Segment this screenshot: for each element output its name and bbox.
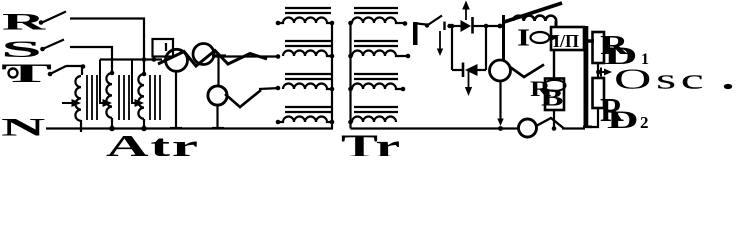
wire T phase xyxy=(66,64,85,75)
autotransformer Atr unit1 winding xyxy=(75,76,81,132)
autotransformer Atr unit3 wiper arrow xyxy=(132,60,144,108)
meter M5 xyxy=(490,60,511,81)
transformer Tr left column row4 core xyxy=(285,107,331,112)
label Osc. xyxy=(614,64,732,95)
wire meter M5 to return bus with arrow xyxy=(497,81,503,131)
switch ST blade xyxy=(48,66,66,76)
sine zigzag across meters xyxy=(158,51,267,67)
check wave on meter M5 xyxy=(510,65,544,78)
diode pair frame xyxy=(450,24,489,70)
current arrow down near switch xyxy=(437,31,443,56)
label R D1 xyxy=(600,31,649,70)
wire N bus xyxy=(46,127,333,129)
meter M1 xyxy=(166,49,188,71)
wire meter M1 to bus xyxy=(170,71,182,129)
resistor RB box xyxy=(545,79,564,111)
wire diode to node xyxy=(486,24,504,29)
oval with arrow xyxy=(531,32,559,43)
svg-text:S: S xyxy=(1,36,42,62)
wire S phase xyxy=(70,47,112,73)
diode D-bottom xyxy=(463,63,478,78)
wire R phase xyxy=(70,19,144,75)
transformer Tr left column row1 core xyxy=(285,8,331,13)
oval on RB xyxy=(544,80,566,91)
wire branch to meter M3 xyxy=(212,56,226,87)
wire RB to return bus xyxy=(552,110,557,131)
transformer Tr left column row2 core xyxy=(285,41,331,46)
svg-text:I/П: I/П xyxy=(553,31,579,51)
autotransformer Atr unit1 wiper arrow xyxy=(62,99,81,107)
svg-text:Atr: Atr xyxy=(106,129,200,156)
wire left column right bus xyxy=(331,23,333,129)
transformer Tr right column row1 winding xyxy=(348,18,407,26)
autotransformer Atr unit3 core xyxy=(150,75,160,120)
autotransformer Atr unit3 winding xyxy=(138,72,146,132)
svg-text:Tr: Tr xyxy=(341,127,402,156)
resistor RD2 box xyxy=(593,78,605,108)
label Atr xyxy=(106,129,200,163)
autotransformer Atr unit1 core xyxy=(87,75,97,120)
terminal N label xyxy=(1,114,46,142)
wire M4 to HV bus xyxy=(562,127,585,129)
wire meter M3 to row3 xyxy=(259,86,280,91)
filter coil L xyxy=(513,16,556,28)
wave on meter M4 xyxy=(536,118,564,129)
wire meter M2 to transformer row2 xyxy=(214,54,280,59)
circle on T terminal xyxy=(9,69,18,78)
autotransformer Atr unit2 winding xyxy=(106,71,114,132)
autotransformer Atr unit2 wiper arrow xyxy=(100,60,112,108)
meter M4 on return bus xyxy=(519,119,537,137)
diode D-top xyxy=(461,17,473,34)
arrow down from diode D-bottom xyxy=(465,70,472,96)
label R D2 xyxy=(600,91,649,133)
wire bus to divider xyxy=(586,39,594,43)
label Tr xyxy=(341,127,402,164)
transformer Tr right column row2 core xyxy=(354,41,398,46)
shunt box above meter M1 xyxy=(153,39,174,57)
wire right column left bus xyxy=(349,23,351,129)
label RB xyxy=(530,76,563,111)
label I with meter glyph xyxy=(517,25,530,51)
svg-text:D: D xyxy=(607,106,639,134)
meter M2 xyxy=(193,44,214,65)
svg-text:Osc: Osc xyxy=(614,64,708,95)
selector box I/II xyxy=(551,27,584,50)
transformer Tr left column row1 winding xyxy=(276,18,335,26)
wire selector to resistor RB xyxy=(553,50,555,79)
tap arrow to oscilloscope xyxy=(600,68,612,77)
wire node down to meter M5 xyxy=(502,15,505,61)
thick bar right of row1 xyxy=(413,22,418,45)
transformer Tr right column row4 winding xyxy=(348,117,396,125)
autotransformer Atr unit2 core xyxy=(119,75,129,120)
transformer Tr left column row3 winding xyxy=(283,84,334,92)
switch SR blade xyxy=(39,12,66,25)
svg-text:N: N xyxy=(1,114,46,142)
resistor RD1 box xyxy=(593,32,605,63)
svg-text:2: 2 xyxy=(640,113,649,132)
wire meter M3 to bus xyxy=(212,105,224,129)
arrow up from diode D-top xyxy=(462,1,470,21)
meter M3 xyxy=(208,86,227,105)
svg-text:I: I xyxy=(517,25,530,51)
transformer Tr left column row2 winding xyxy=(283,51,334,59)
transformer Tr left column row3 core xyxy=(285,74,331,79)
wire lower return bus xyxy=(351,127,520,129)
transformer Tr left column row4 winding xyxy=(276,117,335,125)
terminal R label xyxy=(2,9,47,34)
transformer Tr right column row1 core xyxy=(354,8,398,13)
switch S2 xyxy=(417,16,452,31)
HV thick bus xyxy=(583,26,592,128)
switch SS blade xyxy=(40,40,64,52)
wire tap line xyxy=(100,57,162,62)
terminal T label xyxy=(1,59,52,88)
transformer Tr right column row3 winding xyxy=(348,84,405,92)
check wave on meter M3 xyxy=(225,90,261,107)
transformer Tr right column row4 core xyxy=(354,107,398,112)
wire RD2 to bus foot xyxy=(586,108,598,127)
divider mid tap xyxy=(596,63,601,78)
transformer Tr right column row2 winding xyxy=(348,51,410,59)
thick diagonal disconnect blade xyxy=(504,3,562,22)
transformer Tr right column row3 core xyxy=(354,74,398,79)
terminal S label xyxy=(1,36,42,62)
